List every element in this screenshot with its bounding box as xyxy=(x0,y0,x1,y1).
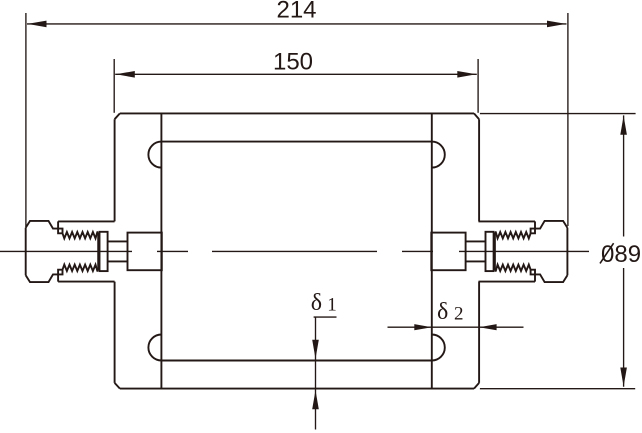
left wall bore lines xyxy=(58,221,115,281)
svg-text:089: 089 xyxy=(601,241,641,268)
left fitting thread relief box top xyxy=(58,229,62,234)
dimension 150 right extension line xyxy=(477,59,479,113)
rounded slot bottom-right xyxy=(432,335,445,361)
right fitting boss square xyxy=(431,233,465,271)
svg-text:2: 2 xyxy=(454,304,464,325)
dimension Ø89 top arrowhead xyxy=(620,116,627,135)
inner liner left wall xyxy=(160,113,162,388)
dimension δ1 leader xyxy=(314,317,337,429)
body top-right chamfer xyxy=(474,113,479,119)
dimension 214 right arrowhead xyxy=(547,21,566,28)
svg-text:δ: δ xyxy=(311,290,322,316)
right fitting (mirrored) xyxy=(431,221,567,282)
left fitting boss square xyxy=(128,233,162,271)
left fitting threads top xyxy=(63,232,99,238)
left fitting flange xyxy=(100,232,108,271)
body outer shell bottom edge xyxy=(120,388,474,390)
body outer shell top edge xyxy=(120,112,474,114)
svg-text:150: 150 xyxy=(273,48,313,75)
label Ø89 diameter slash xyxy=(600,243,614,263)
inner liner top rail xyxy=(161,141,431,143)
dimension 150 line xyxy=(115,73,477,75)
left fitting neck xyxy=(108,241,128,261)
centerline axis xyxy=(0,250,589,252)
right fitting flange xyxy=(485,232,493,271)
dimension Ø89 bottom extension line xyxy=(480,388,635,390)
rounded slot bottom-left xyxy=(148,335,161,361)
right fitting thread root face xyxy=(494,232,496,270)
dimension δ2 left-pointing arrowhead xyxy=(479,324,497,330)
right fitting thread relief box bottom xyxy=(531,270,535,275)
inner liner right wall xyxy=(431,113,433,388)
right fitting hex head xyxy=(535,221,567,282)
right wall bore lines xyxy=(478,221,535,281)
body top-left chamfer xyxy=(115,113,120,119)
left fitting thread relief box bottom xyxy=(58,270,62,275)
left fitting thread root face xyxy=(97,232,99,270)
dimension δ1 down arrowhead xyxy=(312,340,319,359)
dimension 150 left arrowhead xyxy=(116,71,135,78)
dimension Ø89 bottom arrowhead xyxy=(620,368,627,387)
rounded slot top-left xyxy=(148,142,161,168)
svg-text:δ: δ xyxy=(437,299,448,325)
right fitting neck xyxy=(466,241,486,261)
body right edge (interrupted by fitting bore) xyxy=(478,119,480,383)
dimension δ1 up arrowhead xyxy=(312,390,319,409)
dimension δ2 right-pointing arrowhead xyxy=(414,324,432,330)
rounded slot top-right xyxy=(432,142,445,168)
dimension 150 left extension line xyxy=(113,59,115,113)
left fitting threads bottom xyxy=(63,265,99,271)
dimension Ø89 top extension line xyxy=(480,113,636,115)
right fitting threads bottom xyxy=(495,265,531,271)
dimension 150 right arrowhead xyxy=(457,71,476,78)
inner liner bottom rail xyxy=(161,360,431,362)
dimension 214 right extension line xyxy=(567,13,569,226)
dimension 214 left extension line xyxy=(25,13,27,227)
dimension 214 left arrowhead xyxy=(28,21,47,28)
right fitting threads top xyxy=(495,232,531,238)
body bottom-left chamfer xyxy=(115,383,120,389)
body left edge (interrupted by fitting bore) xyxy=(114,119,116,383)
dimension δ2 line xyxy=(388,326,524,328)
svg-text:1: 1 xyxy=(327,294,337,315)
dimension Ø89 line xyxy=(623,115,625,386)
right fitting thread relief box top xyxy=(531,229,535,234)
dimension 214 line xyxy=(27,23,567,25)
svg-text:214: 214 xyxy=(276,0,316,24)
body bottom-right chamfer xyxy=(474,383,479,389)
left fitting hex head xyxy=(26,221,58,282)
